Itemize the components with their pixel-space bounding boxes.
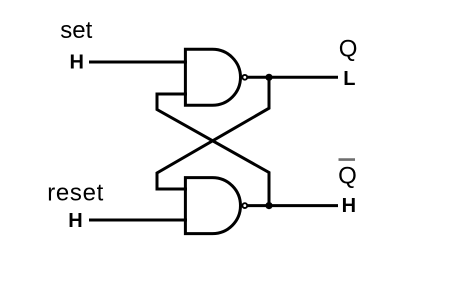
wire feedback Q to lower gate input (top junction, down, diagonal, to bottom gate upper input) [157,77,269,189]
nand gate U1 (top) [185,49,240,105]
wire set input [89,61,187,64]
svg-text:H: H [68,210,82,232]
inverter bubble U1 [242,75,247,80]
svg-text:Q: Q [339,35,358,62]
node Q junction [265,74,272,81]
svg-text:H: H [342,195,356,217]
svg-text:set: set [60,17,92,44]
nand gate U2 (bottom) [185,178,240,234]
wire Qbar output [247,204,338,207]
wire Q output [247,76,338,79]
wire feedback Qbar to upper gate input (bottom junction, up, diagonal, to top gate lower input) [157,94,269,206]
svg-text:H: H [70,52,84,74]
svg-text:Q: Q [338,162,357,189]
svg-text:L: L [343,68,355,90]
inverter bubble U2 [242,203,247,208]
svg-text:reset: reset [47,180,104,207]
node Qbar junction [265,202,272,209]
overline of Qbar [339,158,356,161]
wire reset input [89,219,187,222]
